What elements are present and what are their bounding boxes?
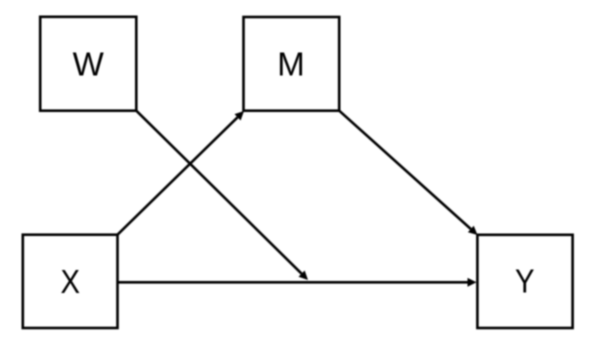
- arrow X to Y (direct path): [118, 278, 477, 287]
- svg-text:X: X: [61, 263, 81, 300]
- box X: [23, 235, 118, 328]
- svg-text:Y: Y: [515, 262, 535, 299]
- arrow X to M (a path): [118, 111, 245, 235]
- svg-text:M: M: [277, 46, 305, 83]
- arrow W to X-Y path (moderation): [136, 111, 308, 280]
- box W: [40, 17, 136, 111]
- arrow M to Y (b path): [339, 111, 477, 235]
- box M: [244, 17, 340, 111]
- svg-text:W: W: [73, 46, 105, 83]
- box Y: [477, 235, 572, 328]
